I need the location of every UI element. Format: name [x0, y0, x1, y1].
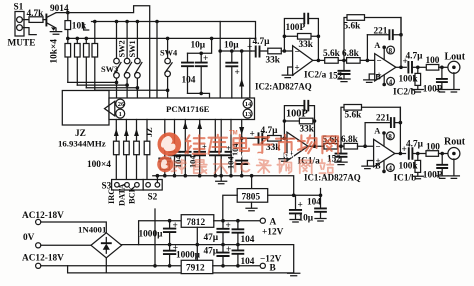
svg-text:−12V: −12V: [260, 255, 282, 265]
svg-text:8: 8: [388, 133, 392, 141]
svg-text:1N4001: 1N4001: [78, 225, 106, 235]
resistor 5.6k: [324, 143, 338, 149]
wire R to base: [43, 19, 46, 21]
svg-text:B: B: [375, 73, 381, 82]
svg-text:BCK: BCK: [128, 185, 137, 204]
svg-text:10k×4: 10k×4: [50, 39, 60, 64]
ground at +in b: [367, 161, 373, 166]
switch SW3: [116, 22, 118, 59]
resistor 33k in: [268, 48, 282, 54]
svg-text:221: 221: [374, 27, 388, 37]
wire S1 to R: [22, 19, 29, 21]
col DATA: [125, 120, 127, 180]
transistor 9014: [45, 15, 47, 26]
svg-text:100×4: 100×4: [87, 160, 111, 170]
feedback 33k branch: [284, 35, 318, 37]
op-amp IC2/a: [293, 46, 313, 75]
cap col 5 w/ ground: [220, 120, 222, 181]
svg-text:IRC: IRC: [107, 189, 116, 204]
svg-text:33k: 33k: [299, 40, 314, 50]
op-amp IC1/b: [374, 139, 395, 167]
watermark text line2: [171, 160, 185, 174]
capacitor 1000u bottom: [169, 245, 171, 266]
svg-text:IC2/a: IC2/a: [304, 71, 327, 81]
svg-text:WWW.DZSC.COM: WWW.DZSC.COM: [237, 153, 295, 160]
svg-text:JZ: JZ: [145, 127, 154, 137]
svg-text:221: 221: [376, 114, 390, 124]
svg-text:DATA: DATA: [118, 184, 127, 207]
svg-text:A: A: [270, 218, 277, 228]
svg-text:4.7k: 4.7k: [27, 9, 45, 19]
bus row2: [92, 22, 256, 39]
svg-text:IC1:AD827AQ: IC1:AD827AQ: [304, 173, 361, 183]
col IRC: [115, 120, 117, 180]
svg-text:TM: TM: [229, 131, 238, 137]
svg-text:MUTE: MUTE: [8, 39, 36, 49]
SECTION: switches: [50, 20, 256, 98]
oscillator module JZ box: [62, 91, 109, 126]
terminal Lout: [448, 61, 460, 73]
SECTION: ic1 channel: [231, 101, 466, 184]
regulator 7912: [181, 260, 213, 273]
capacitor 1000u top: [169, 221, 171, 245]
switch SW4: [167, 38, 169, 58]
svg-text:100: 100: [426, 56, 440, 66]
svg-text:+: +: [226, 221, 231, 231]
capacitor 104 bottom: [237, 245, 239, 266]
capacitor 104 top: [188, 38, 212, 53]
wire AC2 to 7912: [41, 265, 181, 267]
caps bottom wire to chip: [188, 93, 210, 98]
pin 14: [243, 99, 252, 108]
svg-text:−: −: [376, 142, 381, 152]
svg-text:104: 104: [307, 198, 321, 208]
svg-text:+: +: [235, 68, 240, 78]
cap col 4: [214, 120, 216, 176]
SECTION: under-chip: [58, 120, 294, 207]
svg-text:1000µ: 1000µ: [139, 230, 164, 240]
svg-text:Rout: Rout: [444, 137, 466, 148]
col plain: [230, 120, 232, 176]
output 400: [395, 153, 406, 155]
svg-text:104: 104: [241, 257, 255, 267]
svg-text:JZ: JZ: [75, 129, 86, 139]
terminal B: [260, 263, 265, 268]
svg-text:+: +: [402, 145, 407, 155]
feedback 221 cap branch: [365, 122, 400, 124]
svg-text:14: 14: [245, 101, 252, 108]
svg-text:4.7µ: 4.7µ: [406, 52, 424, 62]
resistor 6.8k: [347, 58, 361, 64]
svg-text:100: 100: [426, 143, 440, 153]
svg-text:+: +: [298, 201, 303, 211]
svg-text:+: +: [250, 130, 255, 140]
resistor 5.6k: [325, 58, 339, 64]
wire AC1: [41, 222, 107, 233]
svg-text:13: 13: [245, 111, 252, 118]
bracket stub: [84, 23, 89, 30]
wire S1 lower contact: [22, 28, 36, 35]
col JZ: [146, 120, 148, 180]
svg-text:100k: 100k: [399, 162, 419, 172]
svg-text:5.6k: 5.6k: [323, 49, 341, 59]
resistor 100: [426, 151, 439, 157]
svg-text:B: B: [270, 264, 276, 274]
SECTION: pcm chip: [62, 91, 254, 126]
svg-text:+: +: [173, 221, 178, 231]
node collector: [66, 11, 70, 15]
svg-text:5.6k: 5.6k: [344, 22, 362, 32]
capacitor 104 top: [237, 221, 239, 245]
svg-text:4.7µ: 4.7µ: [253, 37, 271, 47]
capacitor 47u bottom: [222, 245, 224, 266]
resistor 10k: [67, 13, 69, 39]
svg-text:+: +: [203, 54, 208, 64]
col BCK: [136, 120, 138, 180]
regulator 7805: [237, 189, 268, 203]
svg-text:1: 1: [119, 111, 122, 118]
svg-text:IC: IC: [233, 160, 253, 177]
supply bus under chip: [153, 176, 294, 196]
svg-text:5.6k: 5.6k: [345, 111, 363, 121]
svg-text:SW4: SW4: [160, 49, 178, 58]
svg-text:8: 8: [389, 47, 393, 55]
wire pin14 up w/ arrow: [241, 51, 243, 98]
IC PCM1716E: [109, 98, 255, 120]
output node: [313, 59, 325, 61]
wire pin13 down w/ arrow: [241, 120, 243, 176]
svg-text:33k: 33k: [300, 125, 315, 135]
ground at +in: [288, 67, 293, 75]
feedback 100P branch: [284, 106, 314, 147]
ground at +in b: [369, 74, 375, 80]
svg-text:PCM1716E: PCM1716E: [166, 104, 210, 114]
capacitor 47u top: [222, 221, 224, 245]
svg-text:4: 4: [388, 165, 392, 173]
svg-text:+12V: +12V: [262, 228, 284, 238]
SECTION: ic2 channel: [218, 14, 465, 98]
cap col 2: [184, 120, 186, 176]
op-amp IC1/a: [287, 132, 308, 161]
wire mute bus top: [56, 6, 150, 98]
svg-text:0V: 0V: [23, 233, 35, 243]
wire 0V / mid ground bus: [41, 244, 91, 246]
svg-text:7912: 7912: [186, 264, 205, 274]
svg-text:S2: S2: [148, 193, 158, 203]
cap col 1: [174, 120, 176, 176]
svg-text:SW3: SW3: [101, 65, 118, 74]
capacitor 10u at 7805: [295, 195, 297, 219]
capacitor 4.7u in: [242, 137, 258, 139]
svg-text:152: 152: [327, 155, 341, 165]
feedback 33k branch: [284, 120, 314, 122]
feedback 100P branch: [284, 19, 318, 61]
svg-text:10µ: 10µ: [224, 41, 239, 51]
svg-text:7805: 7805: [242, 193, 261, 203]
svg-text:B: B: [375, 162, 381, 171]
svg-text:26: 26: [118, 101, 125, 108]
svg-text:47µ: 47µ: [204, 233, 219, 243]
feedback 5.6k branch: [341, 107, 400, 146]
SECTION: top-left mute switch: [8, 3, 150, 99]
svg-text:6.8k: 6.8k: [341, 135, 359, 145]
bus row3: [68, 37, 256, 39]
output node: [308, 145, 324, 147]
svg-text:104: 104: [241, 235, 255, 245]
svg-text:+: +: [226, 144, 231, 153]
svg-text:10µ: 10µ: [299, 214, 314, 224]
svg-text:100k: 100k: [399, 75, 419, 85]
resistor 100: [426, 65, 439, 71]
svg-text:A: A: [374, 41, 380, 50]
wire chip pin column: [156, 22, 158, 99]
svg-text:10µ: 10µ: [191, 41, 206, 51]
svg-text:−: −: [377, 56, 382, 66]
svg-text:+: +: [295, 63, 300, 73]
svg-text:33k: 33k: [266, 56, 281, 66]
connector S2: [143, 180, 162, 191]
feedback 5.6k branch: [344, 18, 401, 61]
capacitor 152: [343, 60, 345, 78]
switch S1: [15, 12, 24, 37]
svg-text:6.8k: 6.8k: [342, 49, 360, 59]
switch SW1: [136, 22, 138, 59]
crystal column: [164, 120, 166, 176]
svg-text:47µ: 47µ: [204, 247, 219, 257]
switch output rows to chip: [117, 77, 168, 98]
7805 input from +12: [223, 195, 237, 220]
svg-text:16.9344MHz: 16.9344MHz: [58, 139, 106, 149]
svg-text:SW2: SW2: [118, 40, 127, 57]
capacitor 152: [340, 146, 342, 162]
bridge- to bottom bus: [68, 258, 294, 273]
svg-text:4: 4: [389, 78, 393, 86]
SECTION: watermark: [157, 131, 338, 177]
svg-text:152: 152: [329, 72, 343, 82]
capacitor 104 on pin13: [236, 161, 247, 164]
resistor 33k in: [268, 136, 282, 142]
svg-text:104: 104: [182, 76, 196, 86]
svg-text:−: −: [295, 47, 300, 57]
regulator 7812: [181, 215, 214, 228]
7805 out: [268, 194, 321, 196]
capacitor 100P out: [441, 154, 443, 176]
terminal Rout: [448, 148, 460, 160]
op-amp IC2/b: [375, 54, 396, 81]
resistor 100k: [417, 67, 419, 89]
ground end of bus: [288, 273, 300, 276]
ground at +in: [284, 153, 287, 158]
capacitor 104 at 7805: [320, 189, 322, 219]
wire bus2 to bus3: [94, 22, 96, 39]
SECTION: power: [22, 189, 326, 276]
svg-text:A: A: [374, 127, 380, 136]
rail +12V: [214, 220, 260, 222]
svg-text:AC12-18V: AC12-18V: [22, 211, 64, 221]
svg-text:S1: S1: [14, 3, 24, 13]
feedback 221 cap branch: [367, 34, 401, 36]
inverter symbol: [105, 101, 115, 116]
svg-text:AC12-18V: AC12-18V: [22, 254, 64, 264]
svg-text:IC1/b: IC1/b: [394, 174, 417, 184]
svg-text:7812: 7812: [187, 218, 206, 228]
output 401: [396, 66, 406, 68]
svg-text:100P: 100P: [286, 23, 306, 33]
svg-text:Lout: Lout: [445, 52, 466, 63]
svg-text:IC2:AD827AQ: IC2:AD827AQ: [255, 82, 312, 92]
watermark text line1: [186, 135, 206, 154]
pin 1: [116, 109, 125, 118]
switch SW2: [126, 22, 128, 59]
resistor 4.7k: [29, 17, 43, 23]
svg-text:SW1: SW1: [128, 40, 137, 57]
stub to 7805: [251, 176, 253, 189]
stub S2 pin to bus: [156, 176, 158, 183]
svg-text:+: +: [226, 245, 231, 255]
pin 26: [116, 99, 125, 108]
cap col 3: [199, 120, 201, 176]
resistor 6.8k: [344, 143, 358, 149]
svg-text:+: +: [403, 57, 408, 67]
capacitor 100P out: [441, 67, 443, 89]
terminal A: [260, 218, 265, 223]
node pin14 line: [220, 50, 251, 52]
ground (emitter): [50, 32, 61, 35]
resistor 100k: [417, 154, 419, 177]
pin 13: [243, 109, 252, 118]
wire bridge+ to 7812: [139, 221, 182, 245]
7805 gnd: [251, 202, 253, 208]
